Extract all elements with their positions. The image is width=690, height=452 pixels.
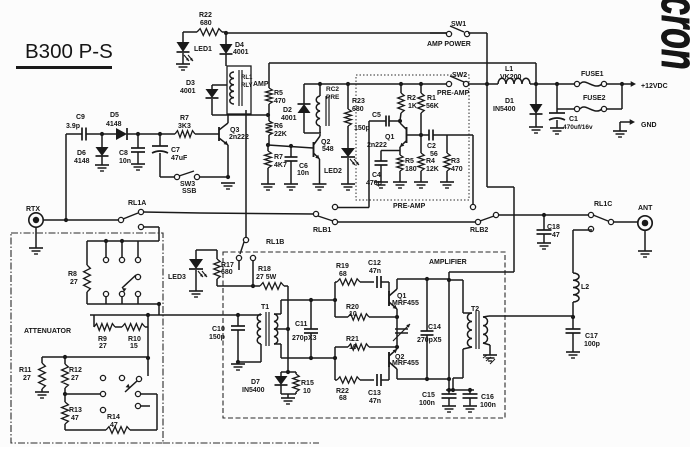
wire T1 tap	[274, 327, 290, 331]
capacitor C9	[66, 114, 86, 141]
wire cap rail	[446, 388, 474, 392]
capacitor C8	[119, 134, 145, 165]
svg-text:ANT: ANT	[638, 205, 653, 212]
capacitor C4	[366, 151, 388, 188]
svg-text:R22: R22	[336, 388, 349, 395]
svg-text:D5: D5	[110, 112, 119, 119]
svg-text:10: 10	[349, 311, 357, 318]
svg-text:C14: C14	[428, 324, 441, 331]
wire supply to amp	[487, 187, 514, 272]
svg-text:2n222: 2n222	[367, 142, 387, 149]
svg-text:R7: R7	[274, 154, 283, 161]
svg-text:12K: 12K	[426, 166, 439, 173]
svg-text:+12VDC: +12VDC	[641, 83, 668, 90]
resistor R8	[68, 241, 90, 304]
contact c5	[135, 403, 150, 408]
switch SW3	[160, 171, 228, 195]
ground R3	[440, 182, 454, 188]
capacitor C16	[463, 390, 496, 409]
resistor R9	[94, 315, 115, 350]
wire SW2-L1	[487, 83, 498, 85]
node R22/D4	[224, 31, 228, 35]
wire atten bus3	[42, 355, 148, 359]
wire amp in top	[281, 298, 337, 302]
diode D6	[74, 134, 109, 165]
svg-text:R2: R2	[407, 95, 416, 102]
wire T1 sec top	[274, 300, 281, 314]
svg-text:RL1: RL1	[241, 75, 253, 81]
logo cron	[650, 0, 690, 70]
svg-text:27: 27	[23, 375, 31, 382]
svg-text:D4: D4	[235, 42, 244, 49]
svg-text:R8: R8	[68, 271, 77, 278]
resistor R4	[418, 135, 439, 182]
ground GND stub	[613, 131, 627, 137]
connector RTX	[26, 206, 43, 227]
resistor R15	[293, 372, 314, 395]
ground D7/R15	[281, 398, 295, 404]
LED D LED2	[324, 126, 359, 184]
wire amp left bus2	[334, 347, 336, 380]
inductor L2	[571, 230, 592, 319]
svg-text:D6: D6	[77, 150, 86, 157]
svg-text:470uf/16v: 470uf/16v	[563, 124, 593, 131]
svg-text:MRF455: MRF455	[392, 360, 419, 367]
svg-text:RLB1: RLB1	[313, 227, 331, 234]
wire atten out	[90, 313, 238, 317]
svg-text:4148: 4148	[74, 158, 90, 165]
ground R7b	[261, 184, 275, 190]
svg-text:470: 470	[274, 98, 286, 105]
resistor R22b	[335, 377, 374, 402]
wire RL1A lower	[143, 227, 159, 241]
title B300 P-S	[16, 40, 113, 69]
ground Q3 emitter	[221, 175, 235, 189]
capacitor C18	[537, 215, 560, 243]
wire atten bus2	[87, 302, 161, 315]
capacitor C6	[285, 144, 310, 184]
contact c1	[100, 375, 105, 380]
svg-text:470: 470	[451, 166, 463, 173]
ground RTX	[29, 227, 43, 254]
svg-text:10: 10	[349, 344, 357, 351]
label AMPLIFIER	[429, 259, 467, 266]
svg-text:4001: 4001	[281, 115, 297, 122]
wire input line	[66, 134, 175, 220]
wire preamp in link	[338, 207, 369, 209]
transistor Q3	[195, 115, 249, 177]
svg-text:150p: 150p	[354, 125, 370, 132]
preamp box	[356, 75, 469, 200]
svg-text:VK200: VK200	[500, 74, 522, 81]
svg-text:AMP: AMP	[253, 81, 269, 88]
svg-text:T1: T1	[261, 304, 269, 311]
resistor R5	[266, 85, 286, 115]
wire atten drop	[146, 315, 150, 376]
resistor R13	[62, 402, 82, 430]
svg-text:R5: R5	[274, 90, 283, 97]
svg-text:LED1: LED1	[194, 46, 212, 53]
border dash bottom	[163, 442, 319, 444]
svg-text:AMPLIFIER: AMPLIFIER	[429, 259, 467, 266]
wire D2/RC2 bottom	[304, 132, 321, 134]
svg-text:68: 68	[339, 395, 347, 402]
resistor R14	[65, 414, 157, 433]
svg-text:R12: R12	[69, 367, 82, 374]
relay contact RL1C	[588, 201, 613, 232]
capacitor C7	[152, 134, 188, 177]
svg-text:100p: 100p	[584, 341, 600, 348]
capacitor C12	[368, 260, 389, 288]
resistor R7b	[265, 145, 287, 184]
diode D2	[281, 84, 311, 133]
relay contact RLB2	[470, 204, 499, 234]
resistor R1	[418, 82, 439, 135]
resistor R22	[197, 12, 222, 35]
capacitor C15	[419, 390, 457, 407]
resistor R3	[444, 135, 463, 182]
capacitor C2	[427, 130, 447, 159]
svg-text:L2: L2	[581, 284, 589, 291]
svg-text:SW1: SW1	[451, 21, 466, 28]
contact b1	[103, 291, 108, 296]
resistor R12	[62, 357, 82, 402]
wire Q1 base	[407, 133, 430, 137]
svg-text:15: 15	[130, 343, 138, 350]
relay RL1 box	[227, 66, 253, 114]
wire R22 branch	[183, 32, 226, 42]
contact a3	[135, 257, 140, 262]
switch SW2	[437, 72, 470, 97]
wire R17-R18	[217, 285, 260, 287]
attenuator box	[11, 233, 163, 443]
svg-text:L1: L1	[505, 66, 513, 73]
svg-text:C1: C1	[569, 116, 578, 123]
svg-text:548: 548	[322, 146, 334, 153]
svg-text:3.9p: 3.9p	[66, 123, 80, 130]
wire collector rail bottom	[397, 377, 449, 381]
svg-text:C13: C13	[368, 390, 381, 397]
capacitor C14	[417, 279, 442, 379]
relay contact RL1B	[236, 237, 284, 288]
contact pivot2	[119, 375, 124, 380]
ground C17	[566, 352, 580, 358]
svg-text:PRE: PRE	[326, 94, 340, 101]
svg-text:GND: GND	[641, 122, 657, 129]
ground R5b	[393, 182, 407, 188]
svg-text:56K: 56K	[426, 103, 439, 110]
svg-text:270pX3: 270pX3	[292, 335, 317, 342]
wire RL1A upper	[143, 212, 314, 214]
wire to ANT	[613, 221, 638, 223]
svg-text:27: 27	[99, 343, 107, 350]
diode D3	[180, 80, 227, 115]
diode D1	[493, 84, 543, 127]
ground D1	[529, 127, 543, 133]
resistor R21	[335, 336, 399, 351]
svg-text:47n: 47n	[369, 268, 381, 275]
ground T2	[483, 355, 497, 364]
svg-text:27: 27	[71, 375, 79, 382]
transformer T1	[238, 304, 278, 346]
LED D LED3	[168, 250, 217, 291]
svg-text:RL1B: RL1B	[266, 239, 284, 246]
wire amp in bottom	[281, 356, 337, 360]
svg-text:R21: R21	[346, 336, 359, 343]
wire preamp output	[447, 135, 473, 204]
svg-text:R10: R10	[128, 336, 141, 343]
svg-text:R20: R20	[346, 304, 359, 311]
svg-text:Q2: Q2	[321, 139, 330, 146]
ground C18	[537, 243, 551, 249]
svg-text:RL1A: RL1A	[128, 200, 146, 207]
wire D4-RL1	[225, 54, 227, 66]
resistor R11	[19, 357, 45, 392]
svg-text:RL1C: RL1C	[594, 201, 612, 208]
svg-text:C5: C5	[372, 112, 381, 119]
transistor Q2	[268, 134, 334, 184]
ground C8	[131, 164, 145, 170]
arrow +12VDC	[622, 81, 668, 90]
label PRE-AMP bottom	[393, 203, 426, 210]
svg-text:R6: R6	[274, 123, 283, 130]
ground T1/C10	[231, 360, 245, 370]
node R6 base	[266, 143, 270, 147]
svg-text:D7: D7	[251, 379, 260, 386]
ground ANT	[638, 230, 652, 257]
svg-text:R18: R18	[258, 266, 271, 273]
svg-text:PRE-AMP: PRE-AMP	[393, 203, 426, 210]
svg-text:270pX5: 270pX5	[417, 337, 442, 344]
transistor Q1 preamp	[367, 121, 407, 151]
ground C6	[284, 184, 298, 190]
svg-text:T2: T2	[471, 306, 479, 313]
svg-text:Q1: Q1	[385, 134, 394, 141]
ground Q2 emitter	[313, 184, 327, 190]
node RTX line	[64, 218, 68, 222]
svg-text:R19: R19	[336, 263, 349, 270]
diode D5	[106, 112, 127, 140]
svg-text:C15: C15	[422, 392, 435, 399]
contact pivot1	[135, 274, 140, 279]
capacitor C17	[566, 317, 600, 352]
resistor R10	[115, 324, 148, 350]
resistor R20	[335, 304, 399, 320]
svg-text:RC2: RC2	[326, 86, 339, 93]
fuse FUSE2	[574, 95, 606, 112]
wire atten stubs2	[106, 297, 138, 304]
svg-text:10: 10	[303, 388, 311, 395]
svg-text:R13: R13	[69, 407, 82, 414]
node L1 out	[530, 82, 577, 86]
selector lever1	[122, 275, 136, 292]
wire preamp input	[368, 121, 370, 208]
svg-text:R1: R1	[427, 95, 436, 102]
svg-text:180: 180	[405, 166, 417, 173]
contact a1	[103, 257, 108, 262]
svg-text:ATTENUATOR: ATTENUATOR	[24, 328, 71, 335]
switch SW1	[427, 21, 471, 48]
selector lever2	[125, 381, 137, 392]
arrow GND	[620, 119, 657, 131]
svg-text:R22: R22	[199, 12, 212, 19]
svg-text:cron: cron	[650, 0, 690, 70]
svg-text:FUSE2: FUSE2	[583, 95, 606, 102]
capacitor C11	[292, 300, 318, 358]
resistor R7	[175, 115, 195, 137]
inductor L1	[498, 66, 530, 84]
svg-text:IN5400: IN5400	[493, 106, 516, 113]
svg-text:3K3: 3K3	[178, 123, 191, 130]
wire T1 sec bottom	[274, 344, 281, 358]
svg-text:680: 680	[352, 106, 364, 113]
wire top rail to SW1	[226, 32, 448, 34]
wire mid	[338, 221, 475, 223]
svg-text:2n222: 2n222	[229, 134, 249, 141]
wire emitter node	[381, 150, 400, 152]
svg-text:56: 56	[430, 151, 438, 158]
wire out link	[498, 213, 589, 217]
label AMP	[253, 81, 269, 88]
svg-text:10n: 10n	[297, 170, 309, 177]
contact a2	[119, 257, 124, 262]
node +12VDC	[607, 82, 624, 109]
resistor R6	[266, 115, 287, 145]
wire RTX-RL1A	[43, 219, 118, 221]
node D6	[100, 132, 104, 136]
connector ANT	[638, 205, 653, 230]
svg-text:LED2: LED2	[324, 168, 342, 175]
ground R4	[414, 182, 428, 188]
contact b2	[119, 291, 124, 296]
svg-text:R5: R5	[405, 158, 414, 165]
svg-text:4148: 4148	[106, 121, 122, 128]
svg-text:SSB: SSB	[182, 188, 196, 195]
svg-text:680: 680	[200, 20, 212, 27]
svg-text:B300 P-S: B300 P-S	[25, 40, 113, 63]
wire atten bus1	[87, 239, 159, 243]
svg-text:47: 47	[71, 415, 79, 422]
ground LED2	[341, 184, 355, 190]
node C8	[136, 132, 140, 136]
svg-text:C4: C4	[372, 172, 381, 179]
label ATTENUATOR	[24, 328, 71, 335]
svg-text:47: 47	[110, 422, 118, 429]
svg-text:27 5W: 27 5W	[256, 274, 277, 281]
svg-text:R3: R3	[451, 158, 460, 165]
transformer T2	[467, 306, 487, 349]
svg-text:C2: C2	[427, 143, 436, 150]
resistor R18	[256, 266, 284, 289]
node R12-R13	[63, 392, 100, 396]
contact c3	[100, 391, 106, 396]
capacitor C5	[354, 112, 402, 132]
svg-text:470p: 470p	[366, 180, 382, 187]
inductor RC2 PRE	[316, 82, 340, 133]
wire T2 feed	[449, 280, 472, 313]
svg-text:RLB2: RLB2	[470, 227, 488, 234]
wire T2 sec top	[483, 316, 573, 317]
capacitor C13	[368, 374, 389, 405]
svg-text:47uF: 47uF	[171, 155, 188, 162]
LED D LED1	[177, 42, 213, 61]
svg-text:D2: D2	[283, 107, 292, 114]
svg-text:FUSE1: FUSE1	[581, 71, 604, 78]
svg-text:LED3: LED3	[168, 274, 186, 281]
resistor R2	[398, 82, 417, 121]
svg-text:C11: C11	[295, 321, 308, 328]
wire R18 out	[284, 286, 288, 372]
svg-text:47n: 47n	[369, 398, 381, 405]
svg-text:C12: C12	[368, 260, 381, 267]
contact b3	[135, 291, 140, 296]
svg-text:R23: R23	[352, 98, 365, 105]
svg-text:Q1: Q1	[397, 293, 406, 300]
diode D7	[242, 370, 296, 394]
svg-text:4001: 4001	[180, 88, 196, 95]
svg-text:R11: R11	[19, 367, 32, 374]
wire SW1 to supply	[468, 33, 487, 187]
svg-text:1K: 1K	[408, 103, 417, 110]
svg-text:27: 27	[70, 279, 78, 286]
wire +12V feed	[269, 63, 536, 85]
svg-text:C9: C9	[76, 114, 85, 121]
wire amp left bus1	[334, 282, 336, 317]
contact c4	[100, 391, 157, 412]
ground LED1	[176, 53, 190, 70]
ground C1	[550, 128, 564, 134]
svg-text:RLY: RLY	[241, 83, 252, 89]
ground C15	[442, 406, 456, 412]
svg-text:C7: C7	[171, 147, 180, 154]
svg-text:100n: 100n	[419, 400, 435, 407]
svg-text:R4: R4	[426, 158, 435, 165]
ground C4	[374, 182, 388, 188]
svg-text:C6: C6	[299, 163, 308, 170]
svg-text:4001: 4001	[233, 49, 249, 56]
svg-text:AMP POWER: AMP POWER	[427, 41, 471, 48]
relay contact RL1A	[118, 200, 146, 230]
wire T1 prim bottom	[238, 344, 261, 362]
wire relay bottom node	[212, 113, 270, 117]
wire atten right	[156, 394, 158, 430]
amplifier box	[223, 252, 505, 418]
transistor Q1 MRF455	[389, 279, 419, 321]
svg-text:RTX: RTX	[26, 206, 40, 213]
svg-text:MRF455: MRF455	[392, 300, 419, 307]
svg-text:Q3: Q3	[230, 127, 239, 134]
capacitor C1	[549, 84, 593, 131]
svg-text:47: 47	[552, 232, 560, 239]
ground D6	[95, 165, 109, 171]
svg-text:C8: C8	[119, 150, 128, 157]
wire D7/R15 bottom	[281, 394, 296, 398]
svg-text:R7: R7	[180, 115, 189, 122]
wire C1-FUSE2	[557, 108, 577, 110]
svg-text:R9: R9	[98, 336, 107, 343]
relay contact RLB1	[313, 204, 338, 234]
wire preamp rail	[304, 83, 449, 85]
diode D4	[220, 33, 249, 56]
svg-text:C18: C18	[547, 224, 560, 231]
svg-text:R15: R15	[301, 380, 314, 387]
svg-text:IN5400: IN5400	[242, 387, 265, 394]
wire relay coil to RL1B	[245, 110, 247, 237]
wire collector rail top	[397, 277, 449, 281]
svg-text:SW3: SW3	[180, 181, 195, 188]
resistor R23	[345, 82, 365, 126]
transistor Q2 MRF455	[389, 338, 419, 380]
